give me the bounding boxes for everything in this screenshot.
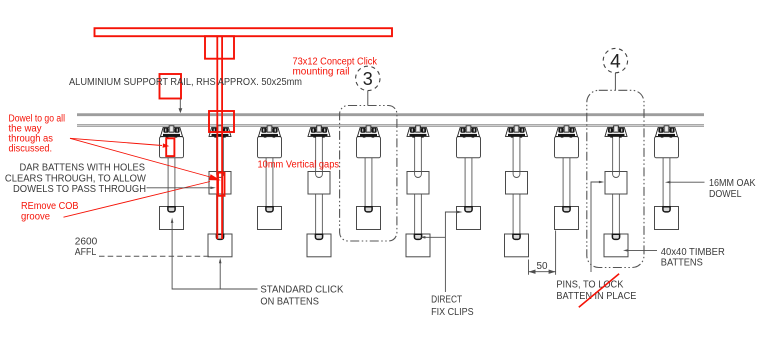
batten column 1 [160, 126, 184, 230]
batten column 2 [208, 126, 232, 257]
red arrowhead at batten2 [209, 174, 221, 180]
red box highlighting RAIL word [160, 74, 182, 99]
svg-text:2600: 2600 [75, 236, 98, 247]
leader: STANDARD CLICK ON BATTENS [172, 220, 257, 289]
red slot in batten 2 mid block [218, 173, 225, 196]
batten column 4 [307, 126, 331, 257]
svg-text:DOWELS TO PASS THROUGH: DOWELS TO PASS THROUGH [13, 184, 146, 195]
callout circle 3 [356, 66, 380, 105]
svg-text:DIRECT: DIRECT [431, 294, 462, 305]
svg-text:50: 50 [537, 261, 548, 272]
callout box 4 (dashed) [587, 90, 644, 267]
mounting rail bottom lines [77, 124, 704, 126]
svg-text:10mm Vertical gaps: 10mm Vertical gaps [258, 160, 340, 171]
batten column 5 [357, 126, 381, 230]
batten column 9 [555, 126, 579, 230]
svg-text:BATTENS: BATTENS [661, 258, 703, 269]
red ceiling bar [95, 28, 393, 36]
svg-text:PINS, TO LOCK: PINS, TO LOCK [556, 280, 623, 291]
batten column 11 [655, 126, 679, 230]
svg-text:16MM OAK: 16MM OAK [709, 178, 756, 189]
red strike-through on pins note [579, 274, 619, 308]
svg-text:4: 4 [610, 51, 621, 72]
batten column 6 [406, 126, 430, 257]
svg-text:discussed.: discussed. [9, 144, 53, 155]
svg-text:ON BATTENS: ON BATTENS [260, 297, 319, 308]
svg-text:DAR BATTENS WITH HOLES: DAR BATTENS WITH HOLES [20, 163, 146, 174]
svg-text:groove: groove [21, 211, 50, 222]
svg-text:DOWEL: DOWEL [709, 189, 742, 200]
callout circle 4 [603, 48, 627, 90]
svg-text:40x40 TIMBER: 40x40 TIMBER [661, 247, 725, 258]
svg-text:FIX CLIPS: FIX CLIPS [431, 307, 474, 318]
batten column 10 [604, 126, 628, 257]
leader: DIRECT FIX CLIPS [445, 212, 459, 292]
svg-text:AFFL: AFFL [75, 247, 97, 258]
leader: 16MM OAK DOWEL [668, 181, 705, 183]
svg-text:3: 3 [363, 69, 373, 89]
svg-text:REmove COB: REmove COB [21, 201, 79, 212]
callout box 3 (dashed) [340, 106, 397, 242]
batten column 3 [258, 126, 282, 230]
dimension 50 [528, 260, 530, 275]
svg-text:CLEARS THROUGH, TO ALLOW: CLEARS THROUGH, TO ALLOW [5, 173, 147, 184]
arrow from RAIL box to rail [179, 99, 181, 111]
aluminium support rail top flange [77, 113, 704, 116]
red hanger box [205, 36, 234, 59]
svg-text:STANDARD CLICK: STANDARD CLICK [260, 285, 343, 296]
leader: DAR battens note to batten2 [147, 187, 213, 189]
svg-text:ALUMINIUM SUPPORT RAIL, RHS AP: ALUMINIUM SUPPORT RAIL, RHS APPROX. 50x2… [69, 77, 302, 88]
red box over rail at hanger [209, 111, 234, 132]
batten column 8 [505, 126, 529, 257]
batten column 7 [457, 126, 481, 230]
red leader: dowel note to batten2 block [70, 138, 212, 177]
leader: 40x40 TIMBER BATTENS [626, 249, 657, 251]
red slot in batten 1 top block [166, 138, 174, 156]
2600 AFFL dashed level line [99, 255, 209, 257]
red leader: REmove COB groove to batten2 block [64, 182, 211, 218]
leader: PINS TO LOCK [591, 182, 601, 272]
svg-text:mounting rail: mounting rail [293, 67, 350, 78]
red hanger rods [216, 37, 218, 240]
red leader: dowel note to batten1 slot [70, 138, 162, 145]
